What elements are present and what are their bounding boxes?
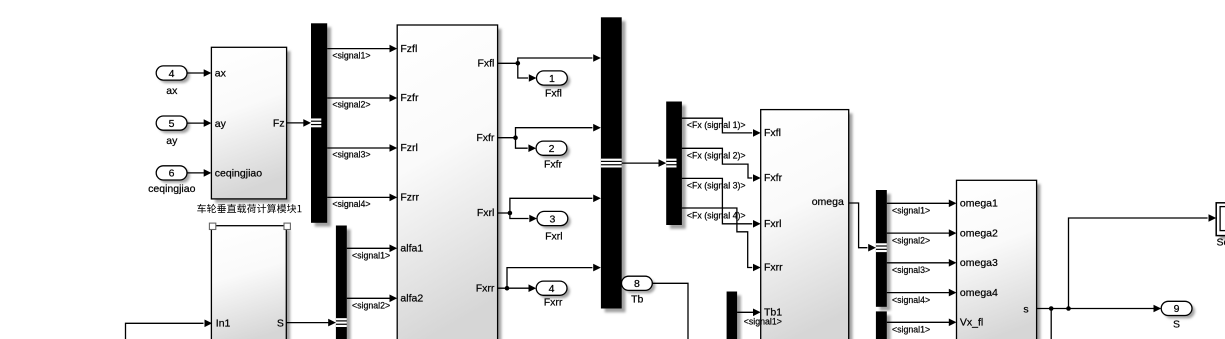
svg-text:4: 4 [169, 68, 175, 80]
mux MX [605, 21, 626, 312]
wire s down [1050, 309, 1052, 339]
svg-text:Fxrl: Fxrl [477, 207, 495, 219]
svg-text:<Fx (signal 1)>: <Fx (signal 1)> [687, 120, 746, 130]
wire D1 out4->U2 [327, 196, 390, 198]
wire Fxfr U2->mux [498, 128, 593, 138]
svg-text:4: 4 [549, 283, 555, 295]
demux D6 [880, 315, 891, 339]
wire s->Scope [1069, 218, 1208, 309]
svg-text:Fxrl: Fxrl [764, 218, 782, 230]
svg-text:S: S [277, 317, 284, 329]
svg-text:<signal1>: <signal1> [744, 316, 782, 326]
wire branch ->outport1 [518, 63, 528, 78]
demux D3 [670, 105, 686, 229]
wire S->D2 [286, 322, 329, 324]
inport 6 (ceqingjiao) [159, 169, 190, 183]
selection handle top-right [284, 223, 290, 229]
wire D1 out1->U2 [327, 48, 390, 50]
svg-text:<signal2>: <signal2> [892, 235, 930, 245]
wire D3 out4->U3 Fxrr [682, 208, 752, 268]
svg-text:In1: In1 [216, 317, 231, 329]
junction Fxfr [513, 135, 518, 140]
junction Fxrr [505, 286, 510, 291]
scope S [1220, 207, 1225, 240]
svg-text:8: 8 [634, 278, 640, 290]
wire ceqingjiao->block1 [187, 172, 205, 174]
svg-text:<signal4>: <signal4> [332, 199, 370, 209]
outport 3 (Fxrl) [540, 214, 571, 228]
wire D6 out1->U4 Vx_fl [887, 321, 950, 323]
junction s-2 [1066, 306, 1071, 311]
svg-text:Fzrr: Fzrr [400, 192, 419, 204]
svg-text:Fzfl: Fzfl [400, 43, 417, 55]
svg-text:Vx_fl: Vx_fl [960, 317, 983, 329]
wire MX->D3 [622, 162, 660, 164]
svg-text:Fxfl: Fxfl [764, 127, 781, 139]
selection handle top-left [209, 223, 215, 229]
junction s-1 [1049, 306, 1054, 311]
wire ay->block1 [187, 122, 205, 124]
inport 4 (ax) [159, 69, 190, 83]
svg-text:Fxfr: Fxfr [476, 132, 495, 144]
svg-text:Fxrr: Fxrr [476, 282, 495, 294]
inport 8 (Tb) [624, 279, 655, 293]
demux D2 [340, 229, 351, 339]
wire D5 out1->U4 [887, 202, 950, 204]
svg-text:S: S [1173, 318, 1180, 330]
svg-text:Fzfr: Fzfr [400, 92, 419, 104]
svg-text:<signal1>: <signal1> [352, 251, 390, 261]
wire Tb down [652, 283, 688, 339]
svg-text:<signal3>: <signal3> [332, 150, 370, 160]
label 车轮垂直载荷计算模块1 (block name) [197, 204, 301, 213]
svg-text:Fxfl: Fxfl [545, 88, 562, 100]
svg-text:omega4: omega4 [960, 287, 998, 299]
svg-text:s: s [1023, 304, 1028, 316]
svg-text:Fxrr: Fxrr [544, 297, 563, 309]
svg-text:<signal1>: <signal1> [892, 206, 930, 216]
wire ->In1 [126, 323, 204, 339]
wire D3 out2->U3 Fxfr [682, 148, 752, 178]
wire D5 out3->U4 [887, 262, 950, 264]
subsystem U4 [960, 184, 1040, 339]
svg-text:<signal1>: <signal1> [892, 325, 930, 335]
svg-text:alfa1: alfa1 [400, 243, 423, 255]
svg-text:ax: ax [166, 85, 178, 97]
wire D2 out1->U2 [347, 247, 391, 249]
outport 1 (Fxfl) [539, 74, 570, 88]
wire D2 out2->U2 [347, 297, 391, 299]
svg-text:ax: ax [215, 68, 227, 80]
svg-text:Fxfl: Fxfl [477, 58, 494, 70]
svg-text:Fz: Fz [273, 118, 285, 130]
svg-text:5: 5 [169, 118, 175, 130]
wire Fxfl U2->mux [498, 58, 593, 63]
wire D1 out2->U2 [327, 97, 390, 99]
svg-text:<signal4>: <signal4> [892, 295, 930, 305]
svg-text:Fxrl: Fxrl [545, 230, 563, 242]
svg-text:1: 1 [549, 73, 555, 85]
svg-text:alfa2: alfa2 [400, 293, 423, 305]
wire Fxrl U2->mux [498, 198, 593, 213]
svg-text:<signal1>: <signal1> [332, 50, 370, 60]
svg-text:Tb: Tb [631, 293, 643, 305]
junction Fxrl [508, 211, 513, 216]
wire D5 out2->U4 [887, 232, 950, 234]
outport 4 (Fxrr) [539, 284, 570, 298]
svg-text:6: 6 [169, 168, 175, 180]
wire ax->block1 [187, 72, 205, 74]
svg-text:2: 2 [549, 143, 555, 155]
demux D5 [880, 194, 891, 311]
svg-text:Fxfr: Fxfr [544, 158, 563, 170]
svg-text:<signal2>: <signal2> [332, 100, 370, 110]
subsystem U2 [401, 29, 501, 339]
svg-text:omega3: omega3 [960, 257, 998, 269]
svg-text:3: 3 [549, 213, 555, 225]
svg-text:<signal2>: <signal2> [352, 301, 390, 311]
svg-text:ceqingjiao: ceqingjiao [215, 168, 262, 180]
svg-text:<signal3>: <signal3> [892, 265, 930, 275]
svg-text:ay: ay [215, 118, 227, 130]
wire Fz->D1 [287, 122, 305, 124]
wire omega U3->D5 [849, 203, 868, 248]
wire D5 out4->U4 [887, 292, 950, 294]
svg-text:ay: ay [166, 135, 178, 147]
outport 9 (S) [1164, 304, 1195, 318]
wire branch ->outport2 [516, 138, 528, 149]
svg-text:omega: omega [812, 196, 844, 208]
svg-text:omega2: omega2 [960, 227, 998, 239]
wire branch ->mux [507, 268, 592, 289]
svg-text:Fxfr: Fxfr [764, 172, 783, 184]
wire D3 out3->U3 Fxrl [682, 178, 752, 223]
svg-text:omega1: omega1 [960, 198, 998, 210]
outport 2 (Fxfr) [539, 144, 570, 158]
wire s->outport9 [1037, 308, 1155, 310]
svg-text:Fzrl: Fzrl [400, 142, 418, 154]
inport 5 (ay) [159, 119, 190, 133]
svg-text:Scope1: Scope1 [1217, 236, 1225, 248]
svg-text:<Fx (signal 4)>: <Fx (signal 4)> [687, 210, 746, 220]
wire D1 out3->U2 [327, 147, 390, 149]
demux D1 [315, 27, 331, 227]
subsystem U5 (selected) [215, 230, 290, 339]
svg-text:<Fx (signal 2)>: <Fx (signal 2)> [687, 150, 746, 160]
svg-text:Fxrr: Fxrr [764, 262, 783, 274]
svg-text:9: 9 [1174, 303, 1180, 315]
svg-text:ceqingjiao: ceqingjiao [148, 183, 195, 195]
demux D4 [730, 295, 741, 339]
subsystem U1 (车轮垂直载荷计算模块1) [215, 51, 290, 203]
wire branch ->outport3 [510, 213, 529, 219]
junction Fxfl [516, 61, 521, 66]
subsystem U3 [765, 113, 853, 339]
svg-text:<Fx (signal 3)>: <Fx (signal 3)> [687, 180, 746, 190]
wire Fxrr U2->outport4 [498, 287, 530, 289]
wire D3 out1->U3 Fxfl [682, 118, 752, 133]
wire D4->U3 Tb1 [737, 311, 754, 313]
